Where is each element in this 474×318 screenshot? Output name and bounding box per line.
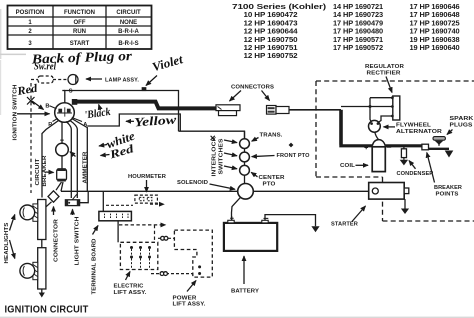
table text [16,10,141,47]
engine dashed enclosure [316,81,474,221]
coil minus mark [387,146,391,148]
violet splice bump [142,88,145,91]
svg-text:ALTERNATOR: ALTERNATOR [396,129,442,135]
ground bus wire [339,144,422,147]
svg-text:AMMETER: AMMETER [83,152,89,184]
svg-text:A: A [83,122,87,128]
breaker points S3 [422,144,429,150]
svg-text:CONDENSER: CONDENSER [397,171,434,177]
coil label arrow [356,164,369,166]
svg-text:SWITCHES: SWITCHES [219,138,225,174]
svg-text:19 HP 1690640: 19 HP 1690640 [410,44,460,52]
connectors label arrows [230,91,242,102]
flywheel alternator G2 [369,120,381,132]
wire A yellow run [73,119,88,191]
starter ground wire [404,199,406,208]
svg-text:LIFT ASSY.: LIFT ASSY. [173,302,206,308]
battery BT1 [224,223,277,251]
wire to light switch 1 [66,122,71,199]
svg-text:17 HP 1690648: 17 HP 1690648 [410,11,460,19]
svg-text:Violet: Violet [151,52,185,74]
hourmeter H1 [135,195,158,203]
coil T1 [372,140,385,146]
svg-text:RECTIFIER: RECTIFIER [367,70,401,76]
vertical labels [4,85,225,295]
starter M2 [369,183,405,200]
svg-text:NONE: NONE [120,20,137,26]
svg-text:'Black: 'Black [84,106,112,122]
circuit breaker CB1 [57,169,67,180]
svg-text:CIRCUIT: CIRCUIT [116,10,141,16]
svg-text:17 HP 1690725: 17 HP 1690725 [410,19,460,27]
svg-text:POSITION: POSITION [16,10,45,16]
power lift label arrow [187,281,196,292]
svg-text:PLUGS: PLUGS [450,123,473,129]
regulator rectifier U1 [393,96,400,120]
interlock switch front pto S5 [240,152,250,162]
svg-text:LAMP ASSY.: LAMP ASSY. [105,77,139,83]
svg-text:BREAKER: BREAKER [434,185,462,191]
interlock feed wire [244,131,246,184]
wire board to electric lift [117,221,119,243]
terminal A lead [72,118,82,122]
svg-text:PTO: PTO [263,182,277,188]
terminal R lead [53,118,58,121]
headlamp housing lower [38,248,46,289]
svg-text:Red: Red [15,83,38,99]
connector P1 right half [267,106,277,115]
ground G1 [445,151,454,158]
svg-text:7100 Series (Kohler): 7100 Series (Kohler) [232,3,327,11]
dashed connector pair lower [151,273,193,275]
wire to light switch 2 [70,121,77,199]
svg-text:12 HP 1690644: 12 HP 1690644 [244,28,298,36]
svg-text:CENTER: CENTER [259,175,285,181]
spark plug X1 [438,143,440,146]
svg-text:17 HP 1690572: 17 HP 1690572 [333,44,383,52]
svg-text:TRANS.: TRANS. [260,133,283,139]
svg-text:17 HP 1690480: 17 HP 1690480 [333,28,383,36]
svg-text:HEADLIGHTS: HEADLIGHTS [4,222,10,263]
wire S violet run [65,91,179,132]
wire solenoid to starter [253,190,368,192]
svg-text:BREAKER: BREAKER [42,156,48,187]
svg-text:FUNCTION: FUNCTION [64,10,95,16]
wire rectifier feed [341,98,392,122]
handwritten notes [15,48,184,162]
terminal B lead [50,106,57,109]
printed component labels [105,64,474,308]
svg-text:CONNECTOR: CONNECTOR [54,219,60,262]
svg-text:Sw.rel: Sw.rel [34,62,56,73]
svg-text:COIL: COIL [340,163,355,169]
headlight E2 [33,262,38,279]
dashed wire hourmeter out [150,203,164,205]
ground G4 [311,226,319,232]
svg-text:19 HP 1690638: 19 HP 1690638 [410,36,460,44]
handwritten arrows [27,76,157,156]
svg-text:14 HP 1690721: 14 HP 1690721 [333,3,383,11]
wire connector to engine [289,109,341,111]
solenoid K1 [238,184,254,200]
wire accessory to terminal board [102,191,104,211]
front pto label arrow [252,156,275,157]
electric lift label arrow [126,272,131,281]
wire solenoid to battery plus [232,197,241,220]
svg-text:SOLENOID: SOLENOID [177,180,208,186]
svg-text:IGNITION CIRCUIT: IGNITION CIRCUIT [5,304,89,316]
starter label arrow [352,206,366,222]
svg-text:10 HP 1690472: 10 HP 1690472 [244,11,298,19]
lamp assy dashed holder [38,76,53,83]
svg-text:INTERLOCK: INTERLOCK [212,136,218,177]
svg-text:POINTS: POINTS [436,192,459,198]
headlight E1 [33,204,38,221]
white arrow [99,145,107,147]
connector plug P2 [48,191,59,202]
lamp assy label arrow [86,78,102,80]
dashed connector pair upper [158,237,174,239]
svg-text:REGULATOR: REGULATOR [365,64,404,70]
handwritten x splice [211,136,215,140]
ground G2 [400,160,408,166]
ammeter M1 [56,143,69,156]
wire dash panel dashed boundary [30,83,32,193]
ignition switch SW1 [55,103,75,123]
svg-text:12 HP 1690750: 12 HP 1690750 [244,36,298,44]
accessory wire to solenoid [61,190,238,192]
wire yellow to interlock [179,131,245,139]
ammeter label arrow [70,152,76,157]
svg-text:B-R-I-S: B-R-I-S [118,41,138,47]
trans label arrow [252,138,259,142]
dashed wire hourmeter left stub [106,204,133,206]
dashed drop to electric lift [154,225,156,242]
svg-text:HOURMETER: HOURMETER [128,174,166,180]
wire light switch to accessory bus [80,191,89,202]
violet arrow [146,76,157,86]
svg-text:TERMINAL BOARD: TERMINAL BOARD [92,239,98,295]
wire ammeter to breaker [61,156,63,169]
svg-text:ELECTRIC: ELECTRIC [114,284,144,290]
wire rectifier pin3 to alternator [378,116,392,123]
svg-text:LIFT ASSY.: LIFT ASSY. [114,290,147,296]
engine model parts list [232,3,460,60]
dashed wire to power lift arrow [119,224,166,226]
switch position table [8,6,152,50]
svg-text:BATTERY: BATTERY [231,289,259,295]
svg-text:17 HP 1690571: 17 HP 1690571 [333,36,383,44]
svg-text:12 HP 1690752: 12 HP 1690752 [244,52,298,60]
svg-text:12 HP 1690473: 12 HP 1690473 [244,19,298,27]
hourmeter label arrow [146,180,148,192]
red2 arrow [101,155,110,156]
yellow arrow [126,120,134,122]
red X mark [27,97,35,105]
thick wire engine drop [339,110,343,145]
svg-text:CIRCUIT: CIRCUIT [35,158,41,185]
alternator label arrow [384,126,396,128]
svg-text:RUN: RUN [73,29,86,35]
svg-text:CONNECTORS: CONNECTORS [231,85,274,91]
headlamp housing upper [38,200,46,240]
condenser label arrow [409,161,416,169]
svg-text:FRONT PTO: FRONT PTO [277,153,310,159]
thick wire B battery feed [74,102,217,109]
svg-text:S: S [69,88,73,94]
svg-text:17 HP 1690740: 17 HP 1690740 [410,28,460,36]
svg-text:STARTER: STARTER [331,222,358,228]
svg-text:17 HP 1690646: 17 HP 1690646 [410,3,460,11]
interlock label arrows [224,140,237,143]
ignition switch label arrow [17,113,50,115]
svg-text:B: B [45,104,49,110]
svg-text:17 HP 1690479: 17 HP 1690479 [333,19,383,27]
svg-text:B-R-I-A: B-R-I-A [118,29,139,35]
lamp L1 [53,79,68,81]
breaker points label arrow [427,153,435,183]
wire breaker to accessory bus [61,182,63,191]
headlights label arrows [10,215,15,231]
circuit breaker label arrow [46,171,54,174]
center pto label arrow [251,172,257,177]
spark plugs label arrow [447,130,453,135]
svg-text:FLYWHEEL: FLYWHEEL [396,123,431,129]
node dot marker [289,143,294,148]
condenser C1 [403,146,405,149]
svg-text:14 HP 1690723: 14 HP 1690723 [333,11,383,19]
connector P1 left half [216,105,240,111]
ammeter plus mark [60,138,64,142]
black label arrow [99,105,101,111]
wire R to headlights [42,121,59,198]
interlock switch center pto S6 [240,165,250,175]
wire battery minus to ground [265,215,316,227]
svg-text:12 HP 1690751: 12 HP 1690751 [244,44,298,52]
electric lift assy dashed box [120,242,157,269]
headlight ground arrow [41,289,43,293]
wire breaker to connector plug [56,182,62,190]
light switch S2 [72,194,77,200]
coil plus mark [364,146,368,150]
solenoid label arrow [210,184,236,189]
ground G3 [401,209,409,215]
wire alternator to coil hump [375,132,379,140]
svg-text:SPARK: SPARK [450,116,474,122]
wire to ammeter [61,122,63,144]
terminal board label arrow [93,226,99,235]
svg-text:START: START [70,41,90,47]
interlock switch trans S4 [240,139,250,149]
svg-text:OFF: OFF [74,20,86,26]
power lift assy dashed box [174,230,212,277]
red arrow [32,101,44,110]
wire plug to headlamp housing [46,202,52,207]
light switch label arrow [72,209,74,215]
terminal board TB1 [99,211,131,220]
svg-text:Yellow: Yellow [134,113,178,130]
battery label arrow [243,256,245,284]
regulator label arrow [386,77,392,93]
connector label arrow [53,207,55,216]
svg-text:LIGHT SWITCH: LIGHT SWITCH [75,217,81,266]
